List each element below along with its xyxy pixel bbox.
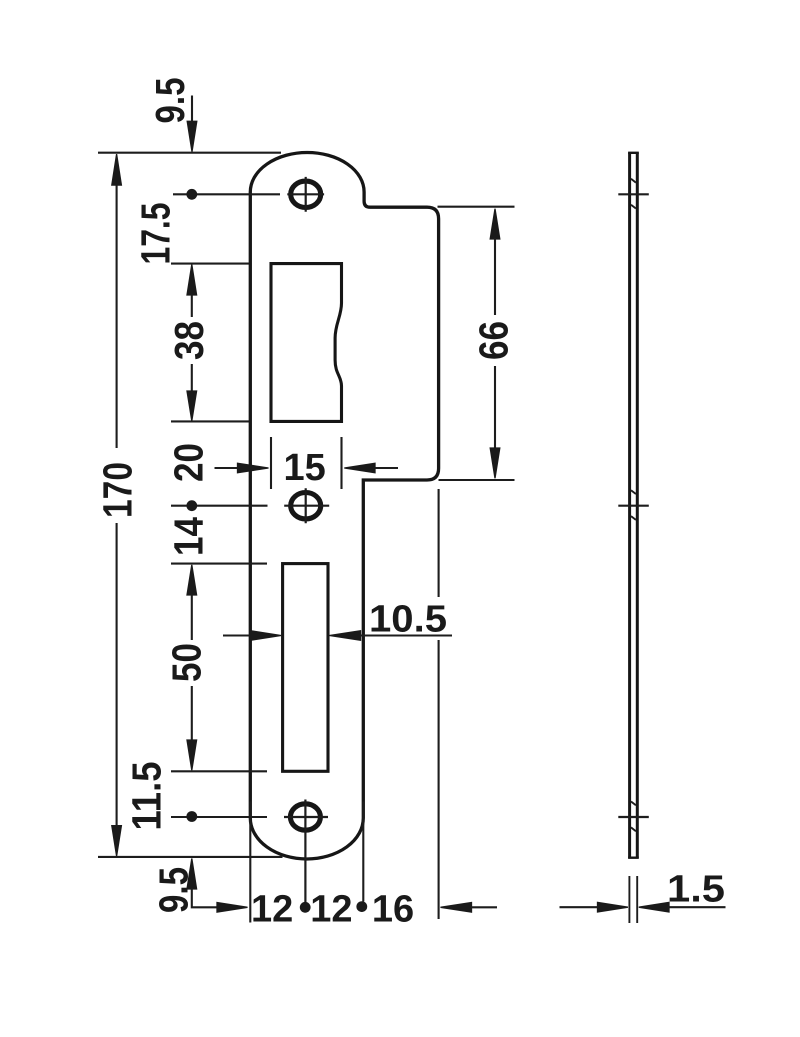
dim 38 top arrow (up) + shaft [187, 265, 197, 296]
hole H2 centerline [171, 505, 268, 507]
top extension line [98, 152, 281, 154]
side view top cap [628, 152, 639, 154]
dim row dot at x=305 [300, 902, 311, 913]
screw hole H1 (top) ring [291, 181, 321, 207]
svg-text:9.5: 9.5 [147, 78, 193, 124]
plate right edge extension down [362, 802, 364, 902]
cutout1 top extension [171, 263, 249, 265]
side view hole3 ticks [631, 802, 636, 832]
dim 10.5 right arrow (points left) [330, 631, 361, 641]
side view bottom cap [628, 857, 639, 859]
lip right edge extension down (upper part) [438, 489, 440, 597]
svg-text:11.5: 11.5 [124, 762, 170, 831]
svg-text:12: 12 [310, 889, 352, 931]
screw hole H2 (middle) ring [291, 493, 321, 519]
cutout2 top extension [171, 563, 267, 565]
svg-text:50: 50 [164, 643, 210, 682]
dim 170 line lower segment with down arrow [116, 523, 118, 825]
cutout2 bottom extension [171, 770, 267, 772]
deadbolt cutout (lower rectangle) [283, 564, 328, 772]
dim 50 top arrow (up) + shaft [187, 565, 197, 595]
dim 38 bottom shaft + arrow (down) [191, 364, 193, 391]
lip right edge extension down (lower part) [438, 640, 440, 919]
svg-text:15: 15 [284, 447, 326, 489]
dim 10.5 left arrow (points right) [223, 634, 251, 636]
dim row dot at x=362 [356, 901, 367, 912]
dim 1.5 right arrow (points left) [639, 902, 669, 912]
side view left face line [628, 153, 631, 859]
bottom extension line [98, 856, 283, 858]
cutout1 bottom extension [171, 420, 249, 422]
dim 66 line lower segment with down arrow [494, 366, 496, 449]
strike plate outline (front view) [250, 153, 438, 859]
side view hole2 bar [618, 505, 649, 507]
svg-text:14: 14 [166, 517, 212, 556]
chain dot at hole3 [186, 811, 197, 822]
chain dot at hole2 [186, 500, 197, 511]
dim 66 bottom extension [439, 479, 515, 481]
dim 16 right arrow (points left) [441, 903, 472, 913]
svg-text:170: 170 [95, 462, 141, 518]
dim 50 bottom shaft + arrow (down) [191, 686, 193, 741]
dim 9.5 bottom: up arrow + L shaft to 12-row arrow [187, 859, 197, 890]
dim 12 left arrow (points right) [217, 903, 248, 913]
screw hole H2 crosshair [284, 488, 329, 523]
svg-text:17.5: 17.5 [133, 203, 179, 265]
svg-text:66: 66 [471, 321, 517, 360]
side view hole3 bar [618, 816, 649, 818]
dim 1.5 left arrow (points right) [560, 906, 599, 908]
dim 1.5 right extension [636, 876, 638, 923]
dim 66 top extension [438, 206, 515, 208]
dim 9.5 top: shaft + down arrow [191, 96, 193, 122]
latch cutout (upper rectangle with wavy right edge) [271, 264, 342, 422]
screw hole H3 (bottom) ring [290, 804, 320, 830]
side view hole2 ticks [631, 490, 636, 520]
svg-text:9.5: 9.5 [151, 867, 197, 913]
svg-text:1.5: 1.5 [667, 869, 725, 911]
dim 15 left arrow (points right) [215, 467, 238, 469]
dim 1.5 left extension [628, 876, 630, 923]
dim 170 line upper segment with up arrow [116, 184, 118, 448]
hole H1 centerline [173, 193, 280, 195]
hole H3 centerline [171, 816, 267, 818]
side view hole1 ticks [631, 179, 636, 209]
svg-text:38: 38 [166, 321, 212, 360]
screw hole H3 crosshair + centerline down to dim row [284, 800, 328, 904]
dim 15 left extension line [270, 437, 272, 489]
dim 15 right arrow (points left) [344, 463, 375, 473]
plate left edge extension down [249, 802, 251, 923]
svg-text:16: 16 [372, 889, 414, 931]
svg-text:20: 20 [166, 443, 212, 482]
dim 66 line upper segment with up arrow [490, 209, 500, 239]
screw hole H1 crosshair [287, 177, 324, 212]
side view right face line [636, 153, 639, 859]
side view hole1 bar [618, 193, 649, 195]
dim 15 right extension line [340, 437, 342, 489]
chain dot at hole1 [186, 189, 197, 200]
svg-text:10.5: 10.5 [369, 599, 447, 641]
svg-text:12: 12 [251, 889, 293, 931]
